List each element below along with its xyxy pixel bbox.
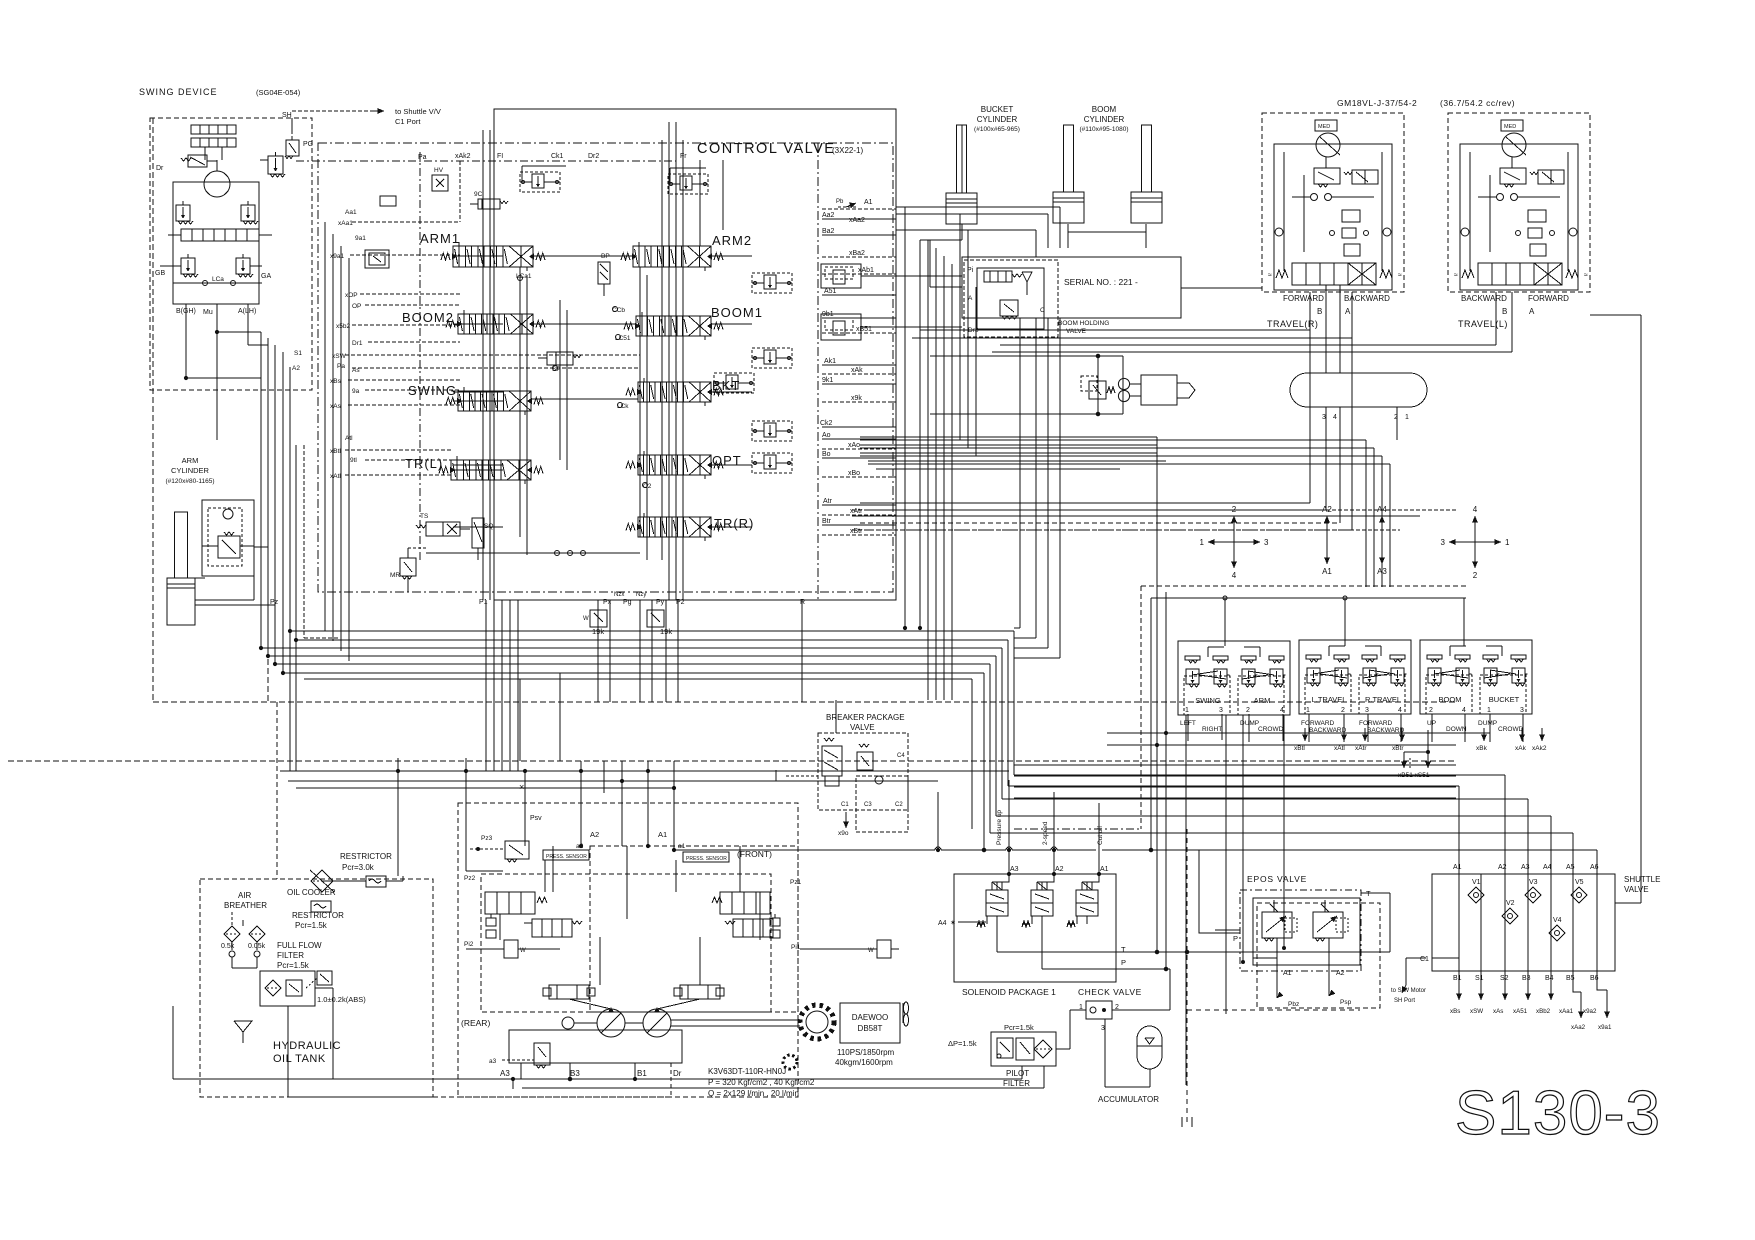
- svg-text:2: 2: [1341, 707, 1345, 714]
- svg-text:A: A: [1529, 307, 1535, 316]
- svg-text:SERIAL NO. : 221 -: SERIAL NO. : 221 -: [1064, 277, 1138, 287]
- svg-text:FORWARD: FORWARD: [1301, 720, 1335, 727]
- CV check circles: [613, 307, 618, 312]
- svg-text:Aa1: Aa1: [345, 209, 357, 216]
- svg-text:xAk2: xAk2: [455, 153, 471, 160]
- svg-text:OPT: OPT: [712, 453, 742, 468]
- relief PG: [268, 156, 283, 174]
- svg-text:xAk: xAk: [1515, 745, 1527, 752]
- svg-text:xBtl: xBtl: [330, 448, 341, 455]
- rear swash actuator: [549, 985, 589, 999]
- cyl lines right: [896, 206, 920, 208]
- svg-text:Psv: Psv: [530, 815, 542, 822]
- boom cylinder right: [1142, 125, 1152, 192]
- svg-text:xAs: xAs: [330, 403, 342, 410]
- travel motor right TRAVEL(R) counterbalance checks: [1311, 194, 1318, 201]
- svg-text:4: 4: [1280, 707, 1284, 714]
- left vertical pilot bus: [260, 332, 262, 648]
- svg-text:xAk: xAk: [851, 367, 863, 374]
- svg-text:xBa2: xBa2: [849, 250, 865, 257]
- svg-text:SHUTTLE: SHUTTLE: [1624, 875, 1660, 884]
- svg-text:CROWD: CROWD: [1498, 726, 1524, 733]
- svg-text:TR(R): TR(R): [714, 516, 754, 531]
- svg-text:2-speed: 2-speed: [1042, 821, 1049, 845]
- boom holding check: [1022, 272, 1032, 282]
- svg-text:x5b2: x5b2: [336, 323, 350, 330]
- svg-text:SH: SH: [282, 112, 292, 119]
- rcv output arrow stubs: [1304, 728, 1306, 741]
- svg-text:xAo: xAo: [848, 442, 860, 449]
- EPOS wires: [1276, 938, 1278, 998]
- svg-text:3: 3: [1441, 538, 1446, 547]
- solenoid feeds: [997, 874, 1009, 890]
- svg-text:Pz2: Pz2: [464, 875, 476, 882]
- misc vertical bundle center: [485, 617, 487, 631]
- svg-text:V1: V1: [1472, 879, 1481, 886]
- dashed boundary lines: [153, 701, 1456, 703]
- svg-text:RIGHT: RIGHT: [1202, 726, 1222, 733]
- travel motor left TRAVEL(L) MED box: [1501, 120, 1523, 131]
- svg-text:V2: V2: [1506, 900, 1515, 907]
- svg-text:FI: FI: [497, 153, 503, 160]
- svg-text:FILTER: FILTER: [1003, 1079, 1030, 1088]
- pilot filter bypass valve: [997, 1038, 1013, 1058]
- control valve boundary dash-dot: [318, 143, 893, 592]
- svg-text:A51: A51: [824, 288, 837, 295]
- solenoid package box: [954, 874, 1116, 982]
- svg-text:xBtr: xBtr: [1392, 745, 1404, 752]
- RCV travel pedals: [1299, 640, 1411, 714]
- boom cylinder left: [1064, 125, 1074, 192]
- svg-text:A2: A2: [1336, 970, 1345, 977]
- descend bundle right: [1156, 592, 1158, 952]
- svg-text:C1: C1: [1420, 956, 1429, 963]
- travel motor right TRAVEL(R) crossover lines: [1283, 152, 1285, 271]
- travel motor right TRAVEL(R) solenoid valve: [1352, 170, 1378, 184]
- svg-text:1: 1: [1306, 707, 1310, 714]
- svg-text:xBs: xBs: [330, 378, 342, 385]
- svg-text:DB58T: DB58T: [858, 1024, 883, 1033]
- swing makeup check right: [236, 258, 250, 274]
- shuttle element V3: [1525, 887, 1541, 903]
- rear servo piston: [504, 940, 518, 958]
- svg-text:xAa1: xAa1: [338, 220, 353, 227]
- svg-text:xBk: xBk: [1476, 745, 1488, 752]
- svg-text:A2: A2: [590, 830, 599, 839]
- Pz check diamonds: [426, 552, 640, 554]
- supply horizontal with jumps: [674, 849, 935, 851]
- svg-text:LCk: LCk: [617, 403, 629, 410]
- shuttle element V4: [1549, 925, 1565, 941]
- breaker L port: [776, 770, 786, 781]
- svg-text:C2: C2: [895, 802, 903, 808]
- travel motor right TRAVEL(R) diamonds: [1275, 228, 1283, 236]
- svg-text:Psp: Psp: [1340, 999, 1352, 1006]
- swing brake shoes: [191, 125, 236, 134]
- svg-text:A1: A1: [658, 830, 667, 839]
- travel motor left TRAVEL(L) motor: [1502, 133, 1526, 157]
- svg-text:T: T: [1121, 945, 1126, 954]
- control valve inner box: [675, 122, 677, 600]
- svg-text:9tl: 9tl: [350, 457, 357, 464]
- swing to valve lines: [185, 304, 187, 378]
- travel R pilot lines: [860, 502, 1310, 504]
- breaker package box: [818, 733, 908, 810]
- svg-text:PRESS. SENSOR: PRESS. SENSOR: [686, 856, 727, 862]
- joystick direction cross swing-arm: [1233, 516, 1235, 542]
- engine gear: [800, 1005, 834, 1039]
- svg-text:Q = 2x129 l/min , 20 l/min: Q = 2x129 l/min , 20 l/min: [708, 1089, 799, 1098]
- travel motor left TRAVEL(L) regulator: [1500, 168, 1526, 184]
- EPOS prop valve 2: [1313, 912, 1343, 938]
- svg-text:V4: V4: [1553, 917, 1562, 924]
- small check LCa: [380, 196, 396, 206]
- svg-text:GM18VL-J-37/54-2: GM18VL-J-37/54-2: [1337, 98, 1417, 108]
- svg-text:B3: B3: [1522, 975, 1531, 982]
- svg-text:Pb: Pb: [836, 199, 844, 205]
- svg-text:DOWN: DOWN: [1446, 726, 1467, 733]
- CV port stub lines right: [822, 208, 896, 210]
- shuttle element V2: [1502, 908, 1518, 924]
- svg-text:xBtr: xBtr: [850, 528, 863, 535]
- restrictor 3.0k symbol: [366, 876, 386, 887]
- svg-text:PG: PG: [303, 141, 313, 148]
- feeder verticals: [937, 792, 939, 850]
- svg-text:3: 3: [1520, 707, 1524, 714]
- 7th bus line: [304, 678, 972, 680]
- ARM1 spool: [453, 246, 533, 267]
- svg-text:xAk2: xAk2: [1532, 745, 1547, 752]
- svg-text:OP: OP: [352, 303, 361, 310]
- svg-text:ARM2: ARM2: [712, 233, 752, 248]
- svg-text:Pcr=1.5k: Pcr=1.5k: [277, 961, 310, 970]
- full flow filter box: [260, 971, 315, 1006]
- swing pilot drops: [324, 222, 326, 631]
- P feed to EPOS: [1151, 850, 1240, 933]
- svg-text:xAtl: xAtl: [330, 473, 341, 480]
- svg-text:ΔP=1.5k: ΔP=1.5k: [948, 1039, 977, 1048]
- svg-text:xB51 xS51: xB51 xS51: [1398, 772, 1430, 779]
- svg-text:A1: A1: [1100, 866, 1109, 873]
- CV internal supply galleries: [482, 130, 484, 600]
- wavy crossover bundle right of CV: [860, 436, 1157, 438]
- svg-text:≈: ≈: [1584, 272, 1588, 279]
- svg-text:xBo: xBo: [848, 470, 860, 477]
- travel motor left TRAVEL(L) solenoid valve: [1538, 170, 1564, 184]
- NR2 relief: [668, 174, 708, 194]
- svg-text:HV: HV: [434, 167, 444, 174]
- swing device port lines: [185, 304, 187, 330]
- serial number box: [962, 257, 1181, 318]
- bypass small glyph: [317, 971, 332, 985]
- svg-text:R.TRAVEL: R.TRAVEL: [1365, 695, 1401, 704]
- svg-text:A(LH): A(LH): [238, 308, 256, 315]
- long crossover verticals right: [1365, 440, 1367, 587]
- travel motor left TRAVEL(L) counterbalance checks: [1497, 194, 1504, 201]
- shuttle element V5: [1571, 887, 1587, 903]
- svg-text:A2: A2: [1498, 864, 1507, 871]
- swing pilot wires: [291, 118, 293, 133]
- to SW motor arrow: [1406, 957, 1426, 959]
- T line to EPOS: [1116, 951, 1390, 953]
- dashdot pilot boundary right: [1014, 828, 1141, 830]
- svg-text:1: 1: [1487, 707, 1491, 714]
- svg-text:VALVE: VALVE: [1624, 885, 1649, 894]
- solenoid valve 2: [1031, 890, 1053, 916]
- 19k pilot relief right: [647, 610, 664, 627]
- svg-text:BOOM HOLDING: BOOM HOLDING: [1058, 320, 1109, 327]
- joystick direction cross boom-bucket: [1474, 516, 1476, 542]
- boom holding relief: [1000, 300, 1018, 316]
- right far vertical from travelL: [1640, 315, 1642, 903]
- pilot gear pump assembly: [930, 355, 1123, 357]
- front regulator: [720, 892, 770, 914]
- svg-text:1: 1: [1405, 414, 1409, 421]
- svg-text:A: A: [1345, 307, 1351, 316]
- svg-text:C1: C1: [841, 802, 849, 808]
- EPOS valve inner box: [1253, 898, 1360, 965]
- breaker check: [875, 776, 883, 784]
- svg-text:xAa2: xAa2: [1571, 1024, 1586, 1031]
- travel motor left TRAVEL(L) travel spool: [1478, 263, 1562, 285]
- shuttle internal wires: [1458, 874, 1460, 971]
- right distribution verticals: [927, 240, 929, 700]
- svg-text:A4: A4: [938, 920, 947, 927]
- svg-text:S130-3: S130-3: [1455, 1079, 1661, 1148]
- cylinder drop verticals: [904, 207, 906, 628]
- arm holding valve box: [202, 500, 254, 576]
- svg-text:A5: A5: [1566, 864, 1575, 871]
- svg-text:xOP: xOP: [345, 292, 358, 299]
- svg-text:Ao: Ao: [822, 432, 831, 439]
- svg-text:xAtr: xAtr: [1355, 745, 1367, 752]
- svg-text:xSW: xSW: [332, 353, 347, 360]
- svg-text:1: 1: [1185, 707, 1189, 714]
- svg-text:BOOM: BOOM: [1439, 695, 1462, 704]
- swing device outer dashed box: [150, 118, 312, 390]
- travel motor right TRAVEL(R) MED box: [1315, 120, 1337, 131]
- tank internal lines: [242, 1032, 244, 1043]
- svg-text:A2: A2: [1055, 866, 1064, 873]
- pilot supply solid line: [1151, 597, 1466, 599]
- svg-text:110PS/1850rpm: 110PS/1850rpm: [837, 1048, 895, 1057]
- pump shaft lines: [574, 1022, 597, 1024]
- svg-text:Pcr=1.5k: Pcr=1.5k: [1004, 1023, 1034, 1032]
- svg-text:CHECK VALVE: CHECK VALVE: [1078, 987, 1142, 997]
- svg-text:1: 1: [1505, 538, 1510, 547]
- svg-text:xAa2: xAa2: [849, 217, 865, 224]
- boom holding pilot line: [930, 286, 962, 288]
- travel pilot lines: [852, 509, 1456, 511]
- svg-text:(3X22-1): (3X22-1): [832, 146, 863, 155]
- svg-text:(#100x#65-965): (#100x#65-965): [974, 126, 1020, 133]
- tank connection lines: [397, 758, 399, 876]
- solenoid valve 1: [986, 890, 1008, 916]
- svg-text:×: ×: [519, 782, 524, 792]
- pump circle rear: [597, 1009, 625, 1037]
- svg-text:Pi1: Pi1: [791, 944, 801, 951]
- svg-text:3: 3: [1264, 538, 1269, 547]
- swing brake release solenoid: [188, 155, 207, 167]
- EPOS valve dashed box: [1240, 890, 1361, 971]
- svg-text:R: R: [800, 599, 805, 606]
- svg-text:x9k: x9k: [851, 395, 862, 402]
- swing motor: [204, 171, 230, 197]
- svg-text:a1: a1: [678, 843, 686, 850]
- svg-text:Py: Py: [656, 599, 665, 606]
- pilot gear pump: [562, 1017, 574, 1029]
- NR1 relief: [520, 172, 560, 192]
- swing relief valve right: [241, 205, 255, 221]
- svg-text:SWING DEVICE: SWING DEVICE: [139, 87, 218, 97]
- BOOM2 spool: [458, 314, 533, 334]
- pump to bus verticals: [512, 1078, 514, 1089]
- svg-text:xBtl: xBtl: [1294, 745, 1305, 752]
- svg-text:S2: S2: [1500, 975, 1509, 982]
- svg-text:(SG04E-054): (SG04E-054): [256, 88, 301, 97]
- svg-text:C4: C4: [897, 753, 905, 759]
- svg-text:(#110x#95-1080): (#110x#95-1080): [1079, 126, 1128, 133]
- upper feed horizontals to rcv area: [1107, 732, 1490, 734]
- pre-pump horizontals: [280, 770, 1009, 772]
- pilot supply dashed boundary: [1141, 585, 1467, 587]
- svg-text:4: 4: [1462, 707, 1466, 714]
- svg-text:FILTER: FILTER: [277, 951, 304, 960]
- svg-text:Pa: Pa: [418, 154, 427, 161]
- svg-text:(REAR): (REAR): [461, 1018, 490, 1028]
- svg-text:B4: B4: [1545, 975, 1554, 982]
- travel motor right TRAVEL(R) regulator: [1314, 168, 1340, 184]
- accumulator stem: [1149, 1069, 1151, 1087]
- arm cylinder: [175, 512, 188, 578]
- svg-text:CYLINDER: CYLINDER: [977, 115, 1018, 124]
- svg-text:9k1: 9k1: [822, 377, 833, 384]
- bus line 6 to supply: [283, 672, 984, 674]
- svg-text:≈: ≈: [1454, 272, 1458, 279]
- svg-text:S1: S1: [1475, 975, 1484, 982]
- check valve port lines: [1070, 1009, 1086, 1011]
- svg-text:xAb1: xAb1: [858, 267, 874, 274]
- svg-text:B: B: [1502, 307, 1507, 316]
- junction dots: [396, 769, 399, 772]
- svg-text:Ak1: Ak1: [824, 358, 836, 365]
- svg-text:P: P: [1121, 958, 1126, 967]
- 9b1 overload relief: [821, 314, 861, 340]
- svg-text:x9a1: x9a1: [1598, 1024, 1612, 1031]
- svg-text:A1: A1: [1453, 864, 1462, 871]
- svg-text:EPOS VALVE: EPOS VALVE: [1247, 874, 1307, 884]
- OPT spool: [638, 455, 711, 475]
- svg-text:PRESS. SENSOR: PRESS. SENSOR: [546, 854, 587, 860]
- SWING spool: [458, 391, 531, 411]
- swing makeup check left: [181, 258, 195, 274]
- travel motor right TRAVEL(R) travel spool: [1292, 263, 1376, 285]
- svg-text:to Shuttle V/V: to Shuttle V/V: [395, 107, 441, 116]
- rear regulator: [485, 892, 535, 914]
- swing device inner solid box: [173, 182, 259, 304]
- svg-text:A4: A4: [1543, 864, 1552, 871]
- A51 overload relief: [821, 264, 861, 288]
- svg-text:W: W: [583, 616, 589, 622]
- svg-text:Nzx: Nzx: [614, 592, 624, 598]
- swing valve row: [181, 229, 259, 241]
- BKT spool: [638, 382, 711, 402]
- cylinder connection lines: [961, 224, 963, 240]
- svg-text:BACKWARD: BACKWARD: [1461, 294, 1507, 303]
- svg-text:C: C: [1040, 307, 1045, 314]
- svg-text:9a1: 9a1: [355, 235, 366, 242]
- svg-text:CROWD: CROWD: [1258, 726, 1284, 733]
- svg-text:SOLENOID PACKAGE 1: SOLENOID PACKAGE 1: [962, 987, 1056, 997]
- RCV1 output wires: [1185, 715, 1187, 1085]
- svg-text:B1: B1: [1453, 975, 1462, 982]
- travel motor right TRAVEL(R): [1262, 113, 1404, 292]
- travel motor left TRAVEL(L) diamonds: [1461, 228, 1469, 236]
- svg-text:2: 2: [1473, 571, 1478, 580]
- svg-text:TRAVEL(R): TRAVEL(R): [1267, 319, 1318, 329]
- svg-text:✶: ✶: [950, 919, 956, 927]
- svg-text:xAtr: xAtr: [850, 508, 863, 515]
- svg-text:FORWARD: FORWARD: [1359, 720, 1393, 727]
- svg-text:VALVE: VALVE: [1066, 328, 1087, 335]
- svg-text:RESTRICTOR: RESTRICTOR: [340, 852, 392, 861]
- svg-text:(#120x#80-1165): (#120x#80-1165): [165, 478, 214, 485]
- svg-text:Nzy: Nzy: [636, 592, 646, 598]
- svg-text:BREATHER: BREATHER: [224, 901, 267, 910]
- svg-text:DAEWOO: DAEWOO: [852, 1013, 888, 1022]
- travel motor left TRAVEL(L) check boxes: [1528, 210, 1546, 222]
- breaker feed: [835, 700, 837, 733]
- tank bottom dashed line: [433, 1096, 672, 1098]
- front reg extra ticks: [770, 918, 780, 926]
- serial box drop lines: [1019, 318, 1021, 628]
- svg-text:A3: A3: [1521, 864, 1530, 871]
- svg-text:Pz1: Pz1: [790, 879, 802, 886]
- shuttle element V1: [1468, 887, 1484, 903]
- svg-text:C3: C3: [864, 802, 872, 808]
- EPOS prop valve 1: [1262, 912, 1292, 938]
- SP valve: [547, 352, 573, 365]
- bucket cylinder: [957, 125, 967, 193]
- pump front inner dashed box: [590, 846, 798, 1012]
- svg-text:HYDRAULIC: HYDRAULIC: [273, 1040, 341, 1052]
- svg-text:LCa: LCa: [212, 276, 224, 283]
- TRL pilot dashed sub-box: [303, 445, 305, 638]
- svg-text:3: 3: [1322, 414, 1326, 421]
- svg-text:Fr: Fr: [680, 153, 687, 160]
- svg-text:MR: MR: [390, 572, 400, 579]
- travel motor right TRAVEL(R) check boxes: [1342, 210, 1360, 222]
- travel motor right TRAVEL(R) motor: [1316, 133, 1340, 157]
- crawler track symbol: [1290, 373, 1427, 407]
- 19k pilot relief left: [590, 610, 607, 627]
- breather triangle: [234, 1021, 252, 1032]
- pump circle front: [643, 1009, 671, 1037]
- ARM2 spool: [633, 246, 711, 267]
- svg-text:A3: A3: [1010, 866, 1019, 873]
- svg-text:DUMP: DUMP: [1478, 720, 1497, 727]
- svg-text:VALVE: VALVE: [850, 723, 875, 732]
- svg-text:SH Port: SH Port: [1394, 998, 1415, 1004]
- svg-text:FULL FLOW: FULL FLOW: [277, 941, 322, 950]
- svg-text:Ck1: Ck1: [551, 153, 564, 160]
- rear reg extra ticks: [486, 918, 496, 926]
- pilot filter box: [991, 1032, 1056, 1066]
- svg-text:PILOT: PILOT: [1006, 1069, 1029, 1078]
- breaker relief: [857, 752, 873, 770]
- svg-text:K3V63DT-110R-HN0J: K3V63DT-110R-HN0J: [708, 1067, 786, 1076]
- check valve: [1086, 1001, 1112, 1019]
